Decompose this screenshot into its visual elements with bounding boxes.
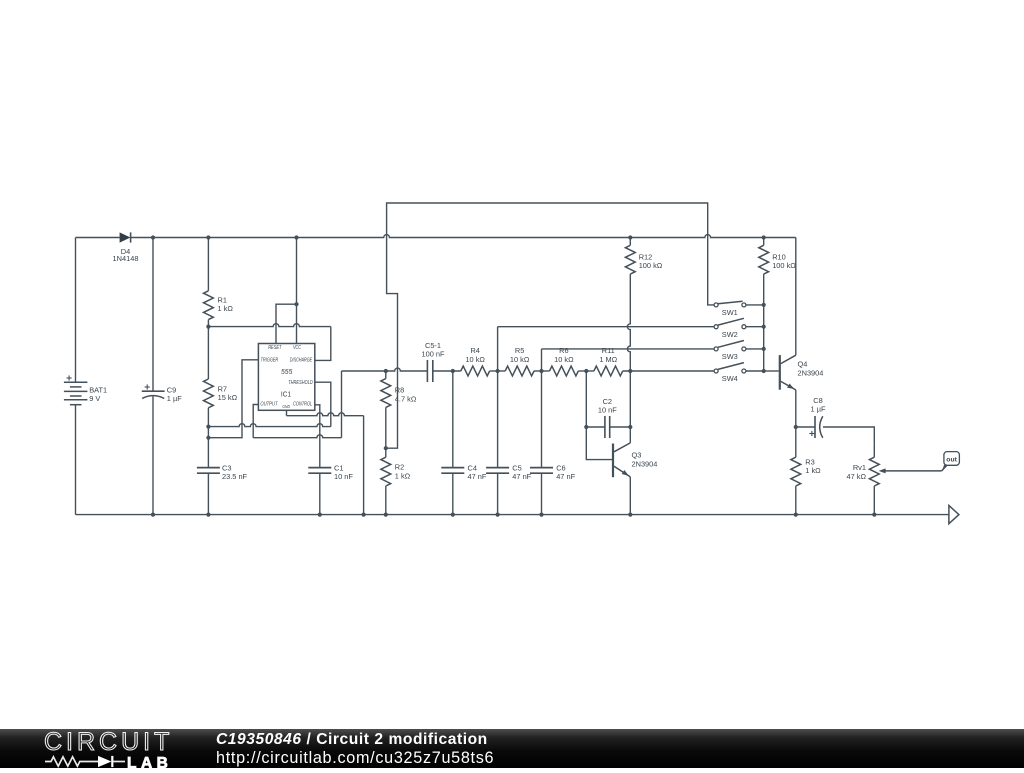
wire R5 to R6 (534, 370, 550, 372)
svg-text:C5: C5 (512, 463, 521, 472)
capacitor C6 (541, 371, 543, 468)
wire R10 bottom bus to SW rows (763, 274, 765, 371)
wire C8 right to Rv1 top (823, 427, 874, 443)
transistor Q3 (612, 444, 614, 478)
wire R6 to R11 (578, 370, 594, 372)
wire RESET bracket (276, 304, 297, 343)
wire R12 bottom crossing SW2 SW3 lines (627, 274, 630, 371)
svg-text:GND: GND (282, 404, 290, 410)
svg-text:10 nF: 10 nF (334, 472, 353, 481)
svg-text:555: 555 (281, 369, 292, 376)
resistor R11 (594, 366, 623, 376)
wire OUTPUT pin down (253, 405, 258, 438)
logo CIRCUIT LAB (44, 731, 173, 753)
svg-text:SW3: SW3 (722, 352, 738, 361)
wire C5-1 to R4 (433, 370, 461, 372)
wire Q4 emitter down to C8 node (795, 390, 797, 427)
resistor R8 (385, 371, 387, 379)
svg-text:100 nF: 100 nF (421, 350, 444, 359)
svg-text:BAT1: BAT1 (89, 385, 107, 394)
svg-text:IC1: IC1 (281, 392, 291, 399)
svg-text:SW1: SW1 (722, 308, 738, 317)
capacitor C4 (452, 371, 454, 468)
svg-text:Q4: Q4 (798, 360, 808, 369)
svg-text:10 kΩ: 10 kΩ (554, 355, 574, 364)
wire R11 node down to C2 right / Q3 collector (629, 371, 631, 443)
node bottom rail junction dots (151, 513, 877, 517)
svg-text:1N4148: 1N4148 (113, 254, 139, 263)
resistor R2 (385, 448, 387, 457)
wire C1 bottom to ground rail (319, 473, 321, 514)
svg-text:1 kΩ: 1 kΩ (218, 304, 234, 313)
wire top rail to R1 (207, 238, 209, 291)
svg-text:2N3904: 2N3904 (798, 368, 824, 377)
svg-text:C2: C2 (603, 397, 612, 406)
capacitor C5-1 (426, 360, 428, 382)
wire wiper to out flag (942, 466, 946, 471)
wire C4 bottom (452, 473, 454, 514)
svg-text:C6: C6 (556, 463, 565, 472)
wire R6/R11 node down to C2 left (585, 371, 587, 427)
output terminal triangle (949, 506, 959, 524)
op-amp timer IC1 555 box (258, 344, 314, 411)
wire R1 bottom to node (207, 320, 209, 327)
svg-text:10 nF: 10 nF (598, 406, 617, 415)
switch SW3 (714, 347, 718, 351)
wire VCC from top rail (296, 238, 298, 344)
wire DISCHARGE elbow down to pin (315, 327, 331, 361)
wire R8 bottom to node (385, 407, 387, 448)
wire Q3 emitter to ground rail (629, 477, 631, 515)
svg-text:Q3: Q3 (632, 451, 642, 460)
wire C9 bottom (152, 396, 154, 514)
footer url text (216, 749, 494, 768)
Rv1 wiper arrow (885, 470, 942, 472)
svg-text:R5: R5 (515, 346, 524, 355)
node top rail junction dots (151, 235, 766, 239)
wire R1 node to DISCHARGE elbow (208, 324, 330, 327)
wire ground bottom rail (76, 514, 949, 516)
wire tap R5/R6 node to SW3 (541, 349, 543, 371)
svg-text:R11: R11 (602, 346, 615, 355)
svg-text:R3: R3 (805, 457, 814, 466)
wire GND pin to ground rail (286, 410, 288, 415)
wire feedback from R8/R2 node to top bracket (386, 203, 714, 448)
capacitor C1 (308, 467, 331, 469)
svg-text:C8: C8 (813, 396, 822, 405)
svg-text:23.5 nF: 23.5 nF (222, 472, 248, 481)
svg-text:R6: R6 (559, 346, 568, 355)
wire Rv1 bottom to ground rail (873, 486, 875, 515)
svg-text:1 kΩ: 1 kΩ (805, 466, 821, 475)
svg-text:100 kΩ: 100 kΩ (639, 261, 663, 270)
svg-text:Rv1: Rv1 (853, 463, 866, 472)
wire C3 bottom to ground rail (207, 473, 209, 514)
wire battery negative to bottom rail (75, 405, 77, 515)
svg-text:1 µF: 1 µF (167, 394, 182, 403)
flag out (942, 465, 949, 471)
switch SW4 (714, 369, 718, 373)
potentiometer Rv1 (873, 443, 875, 457)
battery BAT1 (64, 375, 107, 404)
wire R7 bottom to trigger/threshold nodes (207, 408, 209, 468)
svg-text:R8: R8 (395, 386, 404, 395)
svg-text:1 kΩ: 1 kΩ (395, 471, 411, 480)
svg-text:47 nF: 47 nF (512, 472, 531, 481)
wire TRIGGER to R7/C3 node (208, 360, 258, 438)
svg-text:C1: C1 (334, 463, 343, 472)
svg-text:R12: R12 (639, 252, 653, 261)
svg-text:2N3904: 2N3904 (632, 459, 658, 468)
wire C9 top (152, 238, 154, 392)
svg-text:OUTPUT: OUTPUT (260, 402, 278, 408)
svg-text:10 kΩ: 10 kΩ (510, 355, 530, 364)
wire SW2 right terminal to bus (746, 326, 764, 328)
svg-text:C4: C4 (468, 463, 477, 472)
wire SW4 bus to Q4 base (764, 370, 779, 372)
wire THRESHOLD elbow to pin (315, 382, 331, 426)
svg-text:C3: C3 (222, 463, 231, 472)
capacitor C8 (796, 426, 815, 428)
svg-text:10 kΩ: 10 kΩ (465, 355, 485, 364)
switch SW2 (714, 325, 718, 329)
resistor R4 (461, 366, 490, 376)
capacitor C2 (586, 426, 605, 428)
svg-text:R2: R2 (395, 463, 404, 472)
svg-text:out: out (946, 456, 957, 463)
svg-text:1 MΩ: 1 MΩ (599, 355, 617, 364)
wire top V+ rail (76, 237, 120, 239)
svg-text:9 V: 9 V (89, 394, 100, 403)
wire top rail from D4 cathode to Q4 collector branch (131, 235, 796, 238)
svg-text:RESET: RESET (268, 345, 282, 351)
svg-text:R7: R7 (218, 384, 227, 393)
footer title text (216, 731, 488, 749)
svg-text:SW4: SW4 (722, 374, 738, 383)
capacitor C5 (497, 371, 499, 468)
svg-text:47 kΩ: 47 kΩ (847, 472, 867, 481)
wire C2 left node down to Q3 base (586, 427, 612, 460)
wire R1 node down to R7 (207, 327, 209, 379)
wire OUTPUT run to signal corner (253, 435, 341, 438)
resistor R1 (204, 291, 214, 320)
resistor R7 (204, 379, 214, 408)
wire battery positive to top rail (75, 238, 77, 383)
wire signal row from output corner to C5-1 (342, 368, 428, 371)
resistor R3 (795, 427, 797, 457)
svg-text:VCC: VCC (293, 345, 301, 351)
wire R3 bottom to ground rail (795, 486, 797, 515)
svg-text:R1: R1 (218, 296, 227, 305)
wire tap R4/R5 node to SW2 (497, 327, 499, 371)
svg-text:15 kΩ: 15 kΩ (218, 393, 238, 402)
svg-text:C5-1: C5-1 (425, 341, 441, 350)
svg-text:47 nF: 47 nF (468, 472, 487, 481)
wire CONTROL pin to C1 (315, 405, 320, 468)
capacitor C3 (197, 467, 220, 469)
svg-text:SW2: SW2 (722, 330, 738, 339)
svg-text:THRESHOLD: THRESHOLD (288, 380, 313, 386)
svg-text:TRIGGER: TRIGGER (261, 357, 279, 363)
resistor R6 (550, 366, 579, 376)
svg-text:C9: C9 (167, 386, 176, 395)
wire THRESHOLD link H1 (208, 424, 330, 427)
svg-text:CONTROL: CONTROL (293, 402, 312, 408)
wire SW1 right terminal to bus (746, 304, 764, 306)
svg-text:R10: R10 (772, 252, 786, 261)
wire C6 bottom (541, 473, 543, 514)
wire C5 bottom (497, 473, 499, 514)
svg-text:DISCHARGE: DISCHARGE (290, 357, 313, 363)
resistor R10 (763, 238, 765, 246)
capacitor C9 (142, 390, 165, 392)
switch SW1 (714, 303, 718, 307)
wire R2 bottom to ground rail (385, 486, 387, 515)
resistor R12 (629, 238, 631, 246)
resistor R5 (505, 366, 534, 376)
svg-text:47 nF: 47 nF (556, 472, 575, 481)
wire R11 to SW4 (623, 370, 714, 372)
wire R4 to R5 (490, 370, 506, 372)
wire top rail down to Q4 collector (795, 238, 797, 356)
transistor Q4 (779, 355, 781, 390)
svg-text:R4: R4 (470, 346, 479, 355)
wire SW4 right terminal to bus (746, 370, 764, 372)
wire SW3 right terminal to bus (746, 348, 764, 350)
svg-text:100 kΩ: 100 kΩ (772, 261, 796, 270)
svg-text:1 µF: 1 µF (811, 405, 826, 414)
diode D4 (120, 232, 131, 242)
